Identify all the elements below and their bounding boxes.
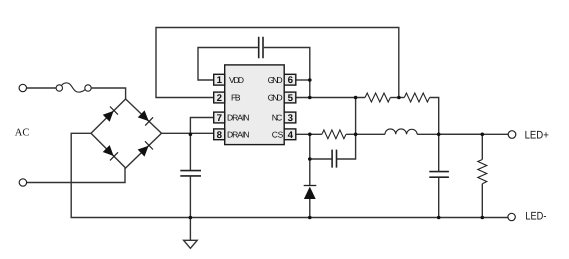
svg-text:GND: GND <box>268 75 283 85</box>
svg-text:6: 6 <box>288 75 294 86</box>
svg-text:4: 4 <box>288 130 294 141</box>
svg-text:5: 5 <box>288 93 294 104</box>
svg-text:CS: CS <box>272 130 284 140</box>
svg-text:1: 1 <box>217 75 223 86</box>
svg-text:7: 7 <box>217 113 222 124</box>
svg-text:2: 2 <box>217 93 222 104</box>
svg-text:NC: NC <box>272 113 283 123</box>
svg-text:8: 8 <box>217 130 223 141</box>
svg-text:AC: AC <box>15 128 30 139</box>
svg-text:VDD: VDD <box>229 75 244 85</box>
svg-text:DRAIN: DRAIN <box>227 130 250 140</box>
svg-text:LED-: LED- <box>525 211 546 223</box>
svg-text:FB: FB <box>231 93 241 103</box>
svg-text:3: 3 <box>288 113 294 124</box>
svg-text:DRAIN: DRAIN <box>227 113 250 123</box>
svg-text:LED+: LED+ <box>525 130 549 142</box>
svg-text:GND: GND <box>268 93 283 103</box>
